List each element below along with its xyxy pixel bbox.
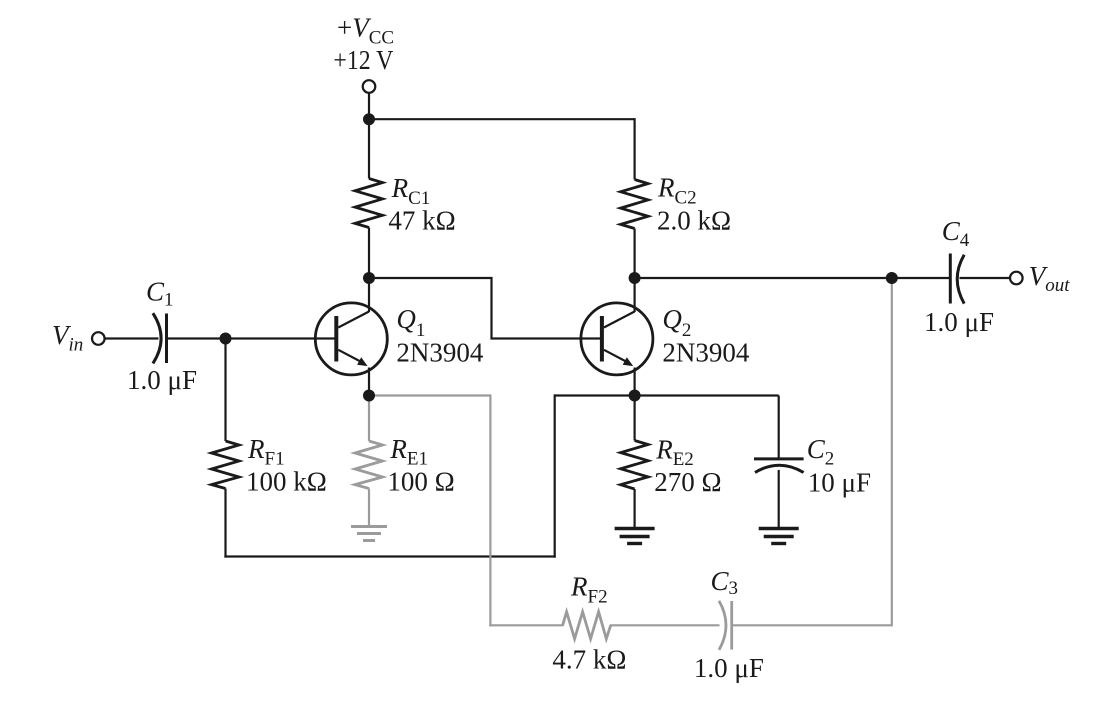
capacitor C4 curved plate: [957, 255, 964, 304]
wire gray feedback column down: [489, 394, 491, 626]
resistor RE1 (gray): [355, 441, 383, 489]
ground under C2: [759, 529, 799, 544]
wire C4 to Vout terminal: [960, 277, 1011, 279]
capacitor C3 curved plate (gray): [719, 601, 726, 650]
ground under RE1 (gray): [351, 527, 387, 541]
resistor RF1: [212, 441, 240, 489]
wire output row Q2 collector to C4: [635, 277, 951, 279]
wire C2 branch drop: [778, 396, 780, 459]
wire gray RE1 top: [368, 396, 370, 442]
wire emitter row left of Q2 node: [555, 394, 635, 396]
wire RC2 bottom to Q2 collector node: [633, 229, 635, 279]
resistor RC1: [355, 179, 383, 228]
ground under RE2: [615, 529, 655, 544]
svg-text:+12 V: +12 V: [333, 45, 393, 75]
wire gray output column up to output node: [891, 278, 893, 626]
node input junction dot: [220, 333, 232, 345]
wire gray Q1 emitter to feedback column: [369, 394, 490, 396]
wire input node to Q1 base: [226, 337, 338, 339]
capacitor C2 curved plate: [755, 465, 804, 472]
node Q2 collector dot: [629, 272, 641, 284]
node Q2 emitter dot: [629, 390, 641, 402]
capacitor C3 straight plate (gray): [730, 601, 733, 650]
svg-text:1.0 μF: 1.0 μF: [694, 653, 764, 683]
resistor RE2: [621, 441, 649, 490]
wire Q2 emitter out of transistor: [633, 368, 635, 396]
svg-text:1.0 μF: 1.0 μF: [127, 365, 197, 395]
capacitor C2 straight plate: [754, 457, 804, 460]
node output dot: [886, 272, 898, 284]
capacitor C1 curved plate: [153, 313, 161, 363]
wire RC2 top drop: [633, 118, 635, 179]
wire feedback vertical up to Q2 emitter row: [554, 394, 556, 557]
svg-text:2.0 kΩ: 2.0 kΩ: [657, 206, 731, 236]
wire C2 bottom to ground: [778, 470, 780, 528]
wire feedback bottom horizontal: [224, 555, 555, 557]
wire RC1 top: [368, 119, 370, 178]
svg-text:47 kΩ: 47 kΩ: [388, 205, 455, 235]
wire top rail: [369, 118, 635, 120]
terminal Vout: [1010, 272, 1023, 285]
svg-text:1.0 μF: 1.0 μF: [924, 307, 994, 337]
wire gray C3 to output column: [733, 624, 892, 626]
svg-text:2N3904: 2N3904: [662, 338, 749, 368]
capacitor C1 straight plate: [165, 314, 168, 364]
capacitor C4 straight plate: [949, 254, 952, 304]
wire RE2 bottom to ground: [633, 489, 635, 528]
wire RC1 bottom to Q1 collector node: [368, 228, 370, 279]
wire Q1 collector into transistor: [368, 278, 370, 312]
wire Q1 collector node to Q2 base (right, down, right): [369, 278, 603, 339]
wire gray RF2 to C3: [610, 624, 720, 626]
wire Q2 collector into transistor: [633, 278, 635, 312]
resistor RF2 (gray, horizontal): [563, 612, 611, 639]
wire RF1 top: [224, 339, 226, 442]
wire C1 to input node: [167, 337, 226, 339]
wire VCC stub: [368, 93, 370, 119]
wire RE2 top: [633, 396, 635, 441]
svg-text:2N3904: 2N3904: [396, 338, 483, 368]
svg-text:4.7 kΩ: 4.7 kΩ: [552, 644, 626, 674]
wire gray feedback row to RF2: [489, 624, 563, 626]
terminal VCC: [363, 80, 376, 93]
svg-text:100 kΩ: 100 kΩ: [246, 467, 327, 497]
svg-text:270 Ω: 270 Ω: [654, 467, 721, 497]
resistor RC2: [621, 180, 649, 229]
wire gray RE1 bottom to ground: [368, 489, 370, 527]
node junction dot top rail: [363, 113, 375, 125]
wire Q1 emitter out of transistor: [368, 368, 370, 396]
transistor Q1: [315, 303, 387, 375]
svg-text:10 μF: 10 μF: [808, 467, 871, 497]
wire Vin terminal to C1: [105, 337, 159, 339]
node Q1 collector dot: [363, 272, 375, 284]
node Q1 emitter dot: [363, 390, 375, 402]
svg-text:100 Ω: 100 Ω: [387, 467, 454, 497]
wire RF1 bottom down: [224, 489, 226, 558]
wire emitter row right of Q2 node to C2 branch: [635, 394, 779, 396]
terminal Vin: [92, 332, 105, 345]
transistor Q2: [581, 303, 653, 375]
